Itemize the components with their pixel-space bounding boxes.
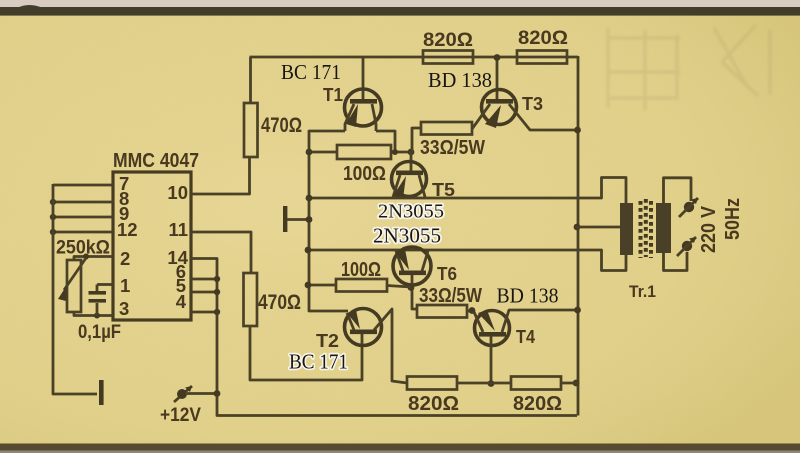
wire secondary bottom to terminal — [664, 252, 688, 271]
wire 820 bottom middle — [457, 382, 511, 385]
resistor 820 top 1 label — [423, 30, 473, 51]
wire T1 collector to junction — [376, 131, 395, 152]
node dots left rail — [50, 199, 56, 235]
wire pin 1 — [97, 283, 113, 286]
BD 138 label bottom — [497, 284, 559, 308]
terminal bar symbol — [283, 206, 312, 232]
resistor R1 470 top body — [244, 103, 258, 157]
resistor 820 top 1 body — [423, 51, 473, 64]
svg-text:12: 12 — [117, 219, 138, 240]
svg-text:T6: T6 — [437, 264, 457, 284]
svg-text:4: 4 — [176, 291, 187, 312]
svg-text:33Ω/5W: 33Ω/5W — [419, 285, 482, 307]
svg-text:2N3055: 2N3055 — [378, 201, 444, 223]
2N3055 label upper — [378, 201, 444, 223]
wire pin 10 to R 470 top — [191, 157, 250, 194]
50Hz label — [722, 198, 744, 240]
IC U1 MMC 4047 box — [113, 172, 191, 320]
capacitor C1 label 0,1uF — [78, 322, 121, 343]
wire pin 7 — [53, 184, 113, 187]
ghost bleed-through lines — [608, 25, 770, 110]
top dark bar — [0, 5, 800, 16]
resistor 100 top body — [337, 145, 391, 159]
wire 100 top right junction row — [391, 149, 414, 156]
T3 label — [522, 94, 543, 114]
svg-text:1: 1 — [120, 275, 130, 296]
svg-text:2: 2 — [120, 248, 130, 269]
potentiometer 250k body — [67, 260, 81, 312]
wire 33 top left to junction — [412, 128, 421, 152]
svg-text:50Hz: 50Hz — [722, 198, 744, 240]
wire pin 6 — [191, 276, 220, 282]
svg-text:820Ω: 820Ω — [518, 28, 568, 49]
wire T1 emitter to mid rail — [309, 131, 348, 311]
resistor 100 bottom body — [336, 279, 387, 292]
potentiometer wiper arrow — [58, 258, 86, 301]
T1 label — [323, 85, 343, 105]
ground bar terminal — [99, 380, 104, 405]
svg-text:820Ω: 820Ω — [423, 30, 473, 51]
svg-text:10: 10 — [167, 182, 188, 203]
resistor R2 470 label — [258, 291, 301, 314]
svg-text:100Ω: 100Ω — [341, 259, 381, 281]
transformer Tr.1 core dashes — [641, 199, 652, 258]
wire 33 bottom right — [467, 307, 475, 314]
wire 100 top left — [306, 149, 337, 156]
resistor 100 top label — [343, 163, 386, 185]
wire pin 11 to R 470 bottom — [191, 232, 251, 273]
wire top rail — [250, 56, 579, 59]
BD 138 label top — [428, 68, 492, 92]
svg-text:Tr.1: Tr.1 — [629, 282, 656, 301]
wire secondary top to terminal — [664, 178, 692, 203]
svg-text:BC 171: BC 171 — [289, 350, 348, 374]
resistor R2 470 bottom body — [244, 273, 258, 326]
wire right rail — [573, 56, 581, 416]
transformer Tr.1 primary winding — [620, 203, 633, 255]
wire 100 bottom left — [305, 282, 336, 289]
node dot top rail T3 — [494, 54, 501, 61]
svg-text:0,1µF: 0,1µF — [78, 322, 121, 343]
resistor 820 top 2 label — [518, 28, 568, 49]
wire pin 12 — [53, 231, 113, 234]
potentiometer 250k label — [56, 238, 110, 259]
output terminal top — [679, 198, 698, 217]
svg-text:3: 3 — [119, 298, 129, 319]
svg-text:T3: T3 — [522, 94, 543, 114]
resistor 820 bottom 1 label — [408, 393, 459, 415]
svg-text:T2: T2 — [316, 331, 339, 351]
transistor T4 BD138 — [474, 310, 577, 387]
T2 label — [316, 331, 339, 351]
BC 171 label top — [281, 60, 341, 84]
top light strip — [0, 0, 800, 8]
wire pin 2 — [74, 254, 113, 261]
svg-text:100Ω: 100Ω — [343, 163, 386, 185]
capacitor C1 0.1uF — [89, 285, 107, 316]
output terminal bottom — [677, 237, 696, 256]
svg-text:+12V: +12V — [160, 405, 201, 426]
resistor 100 bottom label — [341, 259, 381, 281]
wire 820 bottom right — [561, 382, 578, 385]
svg-text:T4: T4 — [516, 327, 535, 347]
resistor 820 bottom 1 body — [407, 377, 457, 390]
svg-text:2N3055: 2N3055 — [373, 224, 441, 248]
resistor 820 top 2 body — [517, 51, 567, 64]
wire 100 bottom right — [387, 286, 411, 288]
IC pin number labels — [117, 173, 189, 319]
transistor T2 BC171 — [345, 309, 408, 384]
svg-text:820Ω: 820Ω — [513, 393, 562, 415]
transistor T1 BC171 — [345, 57, 382, 131]
svg-text:BD 138: BD 138 — [428, 68, 492, 92]
transistor T6 2N3055 — [393, 247, 431, 309]
svg-text:220 V: 220 V — [698, 205, 720, 253]
Tr.1 label — [629, 282, 656, 301]
transistor T3 BD138 — [472, 58, 577, 130]
wire pin 14 — [191, 259, 577, 416]
svg-text:470Ω: 470Ω — [261, 114, 302, 137]
wire pin 5 — [191, 289, 220, 295]
resistor 33/5W bottom body — [417, 305, 467, 318]
resistor 33/5W top body — [421, 122, 472, 135]
wire rail T5 to primary top — [306, 178, 626, 204]
svg-text:BC 171: BC 171 — [281, 60, 341, 84]
svg-text:BD 138: BD 138 — [497, 284, 559, 308]
transformer Tr.1 center tap wire — [577, 226, 620, 229]
svg-text:MMC 4047: MMC 4047 — [113, 150, 199, 172]
220 V label — [698, 205, 720, 253]
resistor 820 bottom 2 body — [511, 377, 561, 390]
IC U1 title MMC 4047 — [113, 150, 199, 172]
transformer Tr.1 secondary winding — [656, 203, 671, 253]
T6 label — [437, 264, 457, 284]
svg-text:T1: T1 — [323, 85, 343, 105]
bottom dark bar — [0, 444, 800, 453]
wire pin 4 — [191, 309, 220, 315]
wire pin 8 — [53, 201, 113, 204]
resistor 33/5W top label — [420, 137, 485, 159]
wire pin 9 — [53, 216, 113, 219]
resistor R1 470 label — [261, 114, 302, 137]
transistor T5 2N3055 — [392, 152, 427, 199]
wire 470 top to top rail — [249, 57, 252, 103]
svg-text:33Ω/5W: 33Ω/5W — [420, 137, 485, 159]
svg-text:470Ω: 470Ω — [258, 291, 301, 314]
resistor 33/5W bottom label — [419, 285, 482, 307]
resistor 820 bottom 2 label — [513, 393, 562, 415]
2N3055 label lower — [373, 224, 441, 248]
+12V label — [160, 405, 201, 426]
wire 470 bottom to T2 base — [250, 326, 362, 380]
BC 171 label bottom — [289, 350, 348, 374]
svg-text:11: 11 — [168, 219, 188, 240]
wire rail T6 to primary bottom — [305, 247, 626, 271]
+12V terminal — [174, 386, 220, 402]
svg-text:820Ω: 820Ω — [408, 393, 459, 415]
T4 label — [516, 327, 535, 347]
T5 label — [432, 180, 455, 200]
wire left rail to ground — [53, 184, 97, 394]
wire pot bottom / pin 3 — [74, 312, 113, 319]
